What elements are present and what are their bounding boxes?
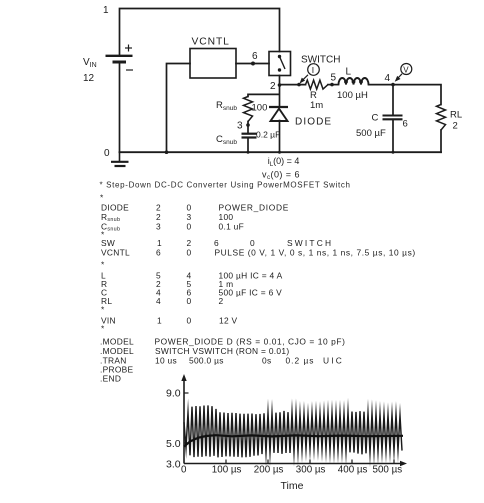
- svg-text:0: 0: [250, 238, 255, 248]
- svg-text:500 µF: 500 µF: [356, 128, 386, 139]
- svg-text:0: 0: [187, 203, 192, 213]
- svg-text:9.0: 9.0: [166, 388, 181, 400]
- svg-text:Time: Time: [281, 480, 304, 492]
- svg-text:300 µs: 300 µs: [296, 464, 326, 475]
- svg-text:10 us: 10 us: [155, 356, 177, 366]
- x-axis arrow: [400, 461, 407, 466]
- resistor Rsnub: [244, 97, 253, 122]
- svg-text:0s: 0s: [262, 356, 271, 366]
- wire bottom rail node 0: [120, 151, 442, 153]
- x ticks: [226, 460, 394, 464]
- ground: [111, 152, 129, 166]
- wire Csnub bottom to ground rail: [247, 138, 249, 152]
- svg-text:POWER_DIODE D (RS = 0.01, CJO: POWER_DIODE D (RS = 0.01, CJO = 10 pF): [155, 337, 346, 347]
- svg-text:I: I: [312, 65, 314, 75]
- battery minus sign: [126, 69, 133, 71]
- svg-text:0.2 µF: 0.2 µF: [256, 130, 280, 140]
- svg-text:UIC: UIC: [323, 356, 344, 366]
- wire snubber tap: [248, 94, 279, 96]
- svg-text:3.0: 3.0: [166, 458, 181, 470]
- svg-text:SWITCH: SWITCH: [287, 238, 333, 248]
- svg-text:4: 4: [156, 296, 161, 306]
- svg-text:100: 100: [252, 103, 268, 114]
- svg-text:6: 6: [156, 248, 161, 258]
- svg-text:.END: .END: [100, 374, 121, 384]
- svg-text:5.0: 5.0: [166, 438, 181, 450]
- svg-text:VCNTL: VCNTL: [101, 248, 130, 258]
- wire capacitor C to ground rail: [392, 120, 394, 152]
- svg-text:1: 1: [157, 316, 162, 326]
- svg-text:0: 0: [181, 464, 187, 475]
- wire node 2 down to diode: [279, 85, 281, 107]
- svg-text:*: *: [101, 324, 105, 334]
- svg-text:3: 3: [187, 212, 192, 222]
- svg-text:500.0 µs: 500.0 µs: [189, 356, 224, 366]
- svg-text:100 µH: 100 µH: [337, 90, 368, 101]
- switch contacts: [278, 55, 281, 58]
- svg-text:1: 1: [157, 238, 162, 248]
- svg-text:100: 100: [219, 212, 234, 222]
- capacitor C: [383, 116, 403, 120]
- VCNTL box U1: [190, 49, 236, 79]
- svg-text:12 V: 12 V: [219, 316, 238, 326]
- plot axes: [184, 378, 403, 464]
- node 3 dot: [246, 123, 250, 127]
- svg-text:0: 0: [187, 222, 192, 232]
- svg-text:4: 4: [385, 73, 391, 84]
- junction dot bottom rail diode: [278, 151, 281, 154]
- svg-text:200 µs: 200 µs: [254, 464, 284, 475]
- netlist text: [100, 181, 416, 384]
- node 4 dot: [391, 83, 395, 87]
- svg-text:Rsnub: Rsnub: [216, 100, 237, 112]
- svg-text:2: 2: [453, 121, 458, 132]
- node 2 junction dot: [278, 83, 282, 87]
- wire RL bottom lead: [440, 130, 442, 152]
- svg-text:3: 3: [156, 222, 161, 232]
- svg-text:2: 2: [156, 203, 161, 213]
- svg-text:POWER_DIODE: POWER_DIODE: [219, 203, 290, 213]
- wire node 4 down to capacitor C: [392, 85, 394, 115]
- svg-text:*: *: [101, 260, 105, 270]
- svg-text:VCNTL: VCNTL: [192, 37, 230, 48]
- diode D1: [269, 107, 288, 121]
- svg-text:1m: 1m: [310, 100, 323, 111]
- wire diode anode to ground rail: [279, 121, 281, 153]
- wire VCNTL output node 6 to switch: [236, 63, 269, 65]
- svg-text:SWITCH VSWITCH (RON = 0.01): SWITCH VSWITCH (RON = 0.01): [155, 346, 289, 356]
- svg-text:0: 0: [187, 296, 192, 306]
- svg-text:6: 6: [214, 238, 219, 248]
- junction dot bottom rail C: [392, 151, 395, 154]
- junction dot bottom rail VCNTL: [165, 150, 169, 154]
- voltage probe V: [395, 64, 412, 82]
- svg-text:* Step-Down DC-DC Converter Us: * Step-Down DC-DC Converter Using PowerM…: [100, 181, 351, 190]
- resistor R: [306, 80, 329, 89]
- svg-text:0: 0: [187, 316, 192, 326]
- svg-text:12: 12: [83, 73, 95, 84]
- svg-text:2: 2: [219, 296, 224, 306]
- svg-text:SWITCH: SWITCH: [301, 55, 340, 66]
- svg-text:Csnub: Csnub: [216, 134, 237, 146]
- svg-text:.MODEL: .MODEL: [100, 346, 134, 356]
- svg-text:vc(0) = 6: vc(0) = 6: [262, 169, 300, 181]
- current probe I: [300, 64, 320, 84]
- svg-text:400 µs: 400 µs: [338, 464, 368, 475]
- svg-text:2: 2: [270, 81, 276, 92]
- svg-text:0.1 uF: 0.1 uF: [219, 222, 245, 232]
- svg-text:L: L: [346, 67, 352, 78]
- wire node 2 to resistor R: [280, 84, 306, 86]
- wire node 4 to load corner: [393, 85, 441, 105]
- wire switch bottom to node 2: [279, 76, 281, 86]
- svg-text:6: 6: [252, 51, 258, 62]
- inductor L: [339, 78, 369, 85]
- wire battery negative to bottom rail: [119, 63, 121, 153]
- wire inductor L to node 4: [369, 84, 394, 86]
- svg-text:2: 2: [187, 238, 192, 248]
- wire Rsnub to node 3 to Csnub: [247, 122, 249, 134]
- resistor RL: [437, 105, 446, 131]
- battery plus sign: [125, 45, 132, 52]
- svg-text:DIODE: DIODE: [101, 203, 129, 213]
- svg-text:SW: SW: [101, 238, 115, 248]
- waveform average trace: [184, 435, 403, 446]
- junction dot bottom rail Csnub: [247, 151, 250, 154]
- node 5 dot: [330, 83, 334, 87]
- svg-text:500 µs: 500 µs: [373, 464, 403, 475]
- svg-text:C: C: [372, 113, 379, 124]
- svg-text:.MODEL: .MODEL: [100, 337, 134, 347]
- svg-text:V: V: [403, 65, 409, 74]
- battery VIN: [106, 56, 133, 62]
- svg-text:DIODE: DIODE: [295, 117, 332, 128]
- wire resistor R to inductor L: [328, 84, 339, 86]
- svg-text:3: 3: [237, 121, 243, 132]
- current marker dot: [297, 83, 301, 87]
- wire top rail node 1: [120, 9, 280, 56]
- svg-text:100 µs: 100 µs: [212, 464, 242, 475]
- svg-text:0: 0: [104, 148, 110, 159]
- node 6 junction dot: [251, 62, 255, 66]
- svg-text:6: 6: [403, 119, 408, 130]
- switch S1 box: [269, 52, 291, 76]
- svg-text:500 µF IC = 6 V: 500 µF IC = 6 V: [219, 288, 283, 298]
- svg-text:PULSE (0 V, 1 V, 0 s, 1 ns, 1: PULSE (0 V, 1 V, 0 s, 1 ns, 1 ns, 7.5 µs…: [215, 248, 416, 258]
- switch blade: [280, 57, 286, 70]
- capacitor Csnub: [242, 134, 257, 138]
- svg-text:0.2 µs: 0.2 µs: [286, 356, 315, 366]
- wire VCNTL left lead down to ground rail: [167, 64, 191, 153]
- svg-text:VIN: VIN: [83, 57, 97, 69]
- svg-text:1: 1: [103, 5, 109, 16]
- svg-text:2: 2: [156, 212, 161, 222]
- waveform ripple trace: [184, 405, 402, 457]
- svg-text:RL: RL: [450, 110, 462, 121]
- svg-text:*: *: [101, 305, 105, 315]
- y-axis arrow: [181, 374, 186, 381]
- y ticks: [184, 393, 189, 443]
- svg-text:iL(0) = 4: iL(0) = 4: [268, 156, 300, 168]
- svg-text:0: 0: [187, 248, 192, 258]
- svg-text:5: 5: [331, 73, 337, 84]
- svg-text:*: *: [100, 193, 104, 203]
